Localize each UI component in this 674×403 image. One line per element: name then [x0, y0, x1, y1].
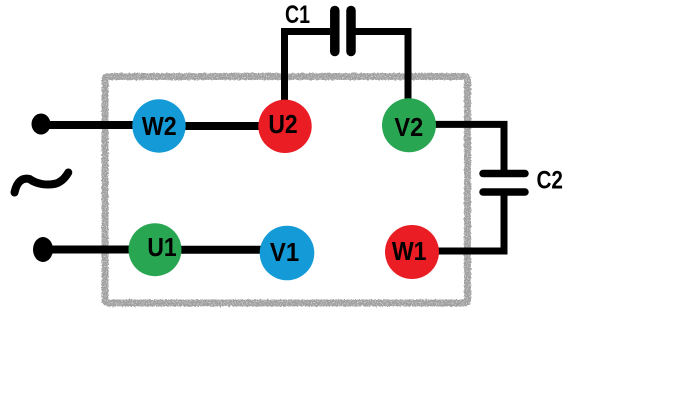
AC source — [15, 173, 69, 193]
terminal V2 — [382, 98, 436, 152]
terminal V1 — [260, 226, 315, 281]
svg-text:U2: U2 — [268, 109, 297, 139]
svg-text:V1: V1 — [270, 237, 299, 267]
motor terminal box — [105, 77, 468, 304]
wire U1 to V1 — [155, 246, 287, 254]
svg-text:W1: W1 — [392, 236, 427, 266]
terminal W2 — [132, 99, 185, 152]
label C1 — [285, 1, 310, 29]
capacitor C1 — [335, 11, 351, 52]
wire L2 to U1 — [43, 246, 150, 254]
terminal U1 — [129, 223, 182, 276]
wire V2 to C2 — [409, 124, 504, 170]
svg-text:C1: C1 — [285, 1, 310, 29]
svg-text:U1: U1 — [147, 232, 176, 262]
terminal dot L1 — [32, 114, 51, 135]
wire C2 to W1 — [412, 195, 504, 251]
capacitor C2 — [483, 174, 525, 193]
svg-text:W2: W2 — [142, 111, 177, 141]
wire U2 up to C1 — [285, 32, 331, 127]
wire C1 to V2 — [356, 32, 409, 127]
svg-text:V2: V2 — [394, 112, 423, 142]
svg-text:C2: C2 — [536, 167, 563, 195]
label C2 — [536, 167, 563, 195]
wire L1 to W2 — [41, 121, 150, 129]
terminal dot L2 — [33, 237, 53, 262]
terminal W1 — [385, 225, 439, 279]
terminal U2 — [258, 100, 311, 153]
wire W2 to U2 — [159, 122, 285, 130]
